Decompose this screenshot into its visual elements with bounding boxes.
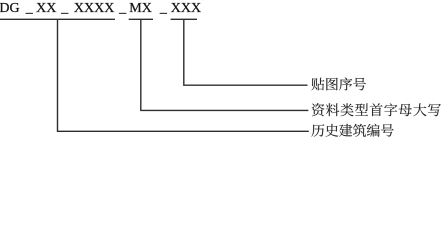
underline under DG _ XX _ XXXX [0, 18, 115, 20]
token underscore 3 [119, 2, 126, 16]
token XXX [171, 2, 201, 16]
token XX [36, 2, 56, 16]
connector from XXX underline to 贴图序号 [184, 19, 308, 85]
label: 资料类型首字母大写 (data type initials capitalized) [312, 103, 441, 116]
code string: DG _ XX _ XXXX _ MX _ XXX [0, 2, 1, 16]
token underscore 4 [160, 2, 167, 16]
token DG [0, 2, 20, 16]
underline under XXX [171, 18, 197, 20]
label: 历史建筑编号 (historic building number) [311, 124, 393, 137]
connector from XXXX underline to 历史建筑编号 [58, 19, 309, 131]
token underscore 1 [26, 2, 33, 16]
label: 贴图序号 (map/texture serial number) [311, 78, 366, 91]
token XXXX [74, 2, 114, 16]
token MX [129, 2, 152, 16]
underline under MX [129, 18, 153, 20]
connector from MX underline to 资料类型首字母大写 [141, 19, 309, 110]
token underscore 2 [61, 2, 68, 16]
